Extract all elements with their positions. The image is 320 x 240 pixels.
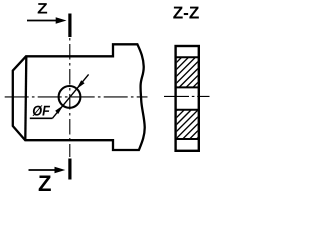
section outline rectangle xyxy=(176,46,199,151)
cutting-plane thick line Z (top) xyxy=(68,14,71,38)
horizontal centerline (section view) xyxy=(164,95,210,97)
section divider line (below top flange) xyxy=(176,56,199,58)
dimension arrowhead (upper-right, pointing at circle) xyxy=(76,80,84,89)
horizontal centerline (main view) xyxy=(5,96,148,98)
diameter dimension line through hole xyxy=(52,74,88,118)
cutting-plane thick line Z (bottom) xyxy=(68,159,71,180)
dimension arrowhead (lower-left, pointing at circle) xyxy=(55,105,63,114)
chamfer edge line (left end) xyxy=(25,56,26,140)
section divider line (top of hole) xyxy=(176,86,199,88)
svg-text:Z-Z: Z-Z xyxy=(173,3,200,23)
section divider line (above bottom flange) xyxy=(176,138,199,140)
svg-text:ØF: ØF xyxy=(32,104,50,120)
vertical centerline (cutting plane axis) xyxy=(69,38,71,157)
svg-text:Z: Z xyxy=(38,171,52,196)
svg-text:Z: Z xyxy=(37,1,48,18)
part outline (main view) xyxy=(13,44,145,150)
arrow Z (top) xyxy=(27,20,58,22)
label underline xyxy=(30,117,53,119)
hole circle xyxy=(59,86,81,108)
section hatching (upper band) xyxy=(166,16,216,183)
section divider line (bottom of hole) xyxy=(176,109,199,111)
arrow Z (bottom) xyxy=(29,169,58,171)
